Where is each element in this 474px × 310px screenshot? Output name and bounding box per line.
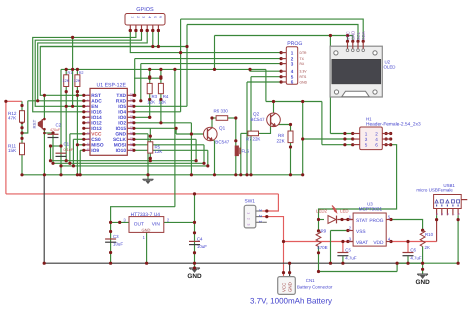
svg-text:MOSI: MOSI	[114, 143, 127, 149]
svg-text:Q2: Q2	[253, 112, 260, 117]
wire	[213, 139, 215, 175]
junction	[159, 98, 162, 101]
wire	[228, 117, 236, 119]
resistor R10	[420, 230, 425, 246]
wire	[342, 256, 344, 263]
wire	[52, 133, 54, 163]
junction	[341, 262, 344, 265]
junction	[76, 90, 79, 93]
svg-text:IO2: IO2	[118, 121, 126, 127]
wire	[265, 69, 267, 101]
wire	[391, 241, 437, 243]
capacitor C6	[403, 252, 414, 254]
wire	[40, 46, 187, 48]
svg-text:1: 1	[247, 212, 251, 214]
svg-text:VBAT: VBAT	[356, 240, 368, 246]
wire	[208, 118, 213, 131]
svg-text:12K: 12K	[155, 149, 163, 154]
junction	[51, 131, 54, 134]
wire	[422, 263, 424, 274]
svg-text:22K: 22K	[253, 137, 261, 142]
wire	[149, 94, 151, 118]
svg-text:12K: 12K	[147, 99, 155, 104]
wire	[110, 222, 112, 263]
svg-text:5: 5	[86, 116, 90, 118]
svg-text:BC547: BC547	[215, 140, 229, 145]
svg-text:19: 19	[129, 109, 133, 113]
junction	[109, 251, 112, 254]
svg-text:2: 2	[258, 215, 263, 218]
junction	[43, 94, 46, 97]
wire	[319, 145, 397, 231]
svg-text:FLS: FLS	[242, 149, 250, 154]
junction	[190, 132, 193, 135]
svg-text:ADC: ADC	[91, 99, 102, 105]
svg-text:4: 4	[291, 69, 294, 74]
wire	[250, 69, 281, 71]
junction	[213, 68, 216, 71]
junction	[72, 164, 75, 167]
wire	[21, 101, 23, 110]
wire	[60, 69, 62, 174]
svg-text:R10: R10	[425, 232, 434, 237]
junction	[43, 173, 46, 176]
junction	[159, 68, 162, 71]
ground symbol center	[189, 267, 200, 269]
svg-text:IO16: IO16	[91, 110, 102, 116]
wire	[289, 263, 291, 279]
svg-text:4: 4	[375, 137, 378, 142]
svg-text:10: 10	[86, 142, 90, 146]
junction	[175, 127, 178, 130]
wire	[397, 262, 458, 264]
svg-text:IO10: IO10	[116, 148, 127, 154]
junction	[280, 80, 283, 83]
svg-text:2: 2	[247, 218, 251, 220]
junction	[265, 209, 268, 212]
junction	[317, 251, 320, 254]
svg-text:6: 6	[159, 16, 163, 18]
svg-text:3.7V, 1000mAh Battery: 3.7V, 1000mAh Battery	[250, 297, 332, 306]
junction	[159, 121, 162, 124]
svg-text:RTS: RTS	[300, 75, 307, 79]
wire	[76, 69, 78, 74]
wire	[146, 232, 148, 263]
junction	[59, 144, 62, 147]
junction	[206, 164, 209, 167]
resistor R2	[75, 75, 80, 87]
junction	[51, 162, 54, 165]
wire	[53, 162, 204, 164]
wire	[422, 247, 424, 264]
svg-text:1: 1	[131, 16, 135, 18]
svg-text:VIN: VIN	[152, 221, 161, 227]
svg-text:15K: 15K	[8, 148, 17, 153]
svg-text:12K: 12K	[74, 79, 81, 83]
IC U1 ESP-12E	[90, 88, 127, 155]
svg-text:GND: GND	[187, 273, 202, 280]
svg-text:17: 17	[129, 120, 133, 124]
svg-text:3: 3	[86, 105, 90, 107]
svg-text:SCLK: SCLK	[113, 137, 127, 143]
svg-text:RST: RST	[32, 119, 37, 128]
wire	[175, 128, 177, 134]
capacitor C3	[105, 238, 116, 240]
junction	[148, 68, 151, 71]
junction	[272, 100, 275, 103]
svg-text:7: 7	[86, 127, 90, 129]
ground symbol right	[417, 273, 428, 275]
wire	[259, 126, 271, 134]
wire	[215, 36, 353, 42]
svg-text:RXD: RXD	[116, 99, 127, 105]
junction	[351, 132, 354, 135]
svg-text:TX: TX	[300, 57, 305, 61]
wire	[69, 134, 71, 164]
junction	[151, 29, 154, 32]
svg-text:2: 2	[86, 99, 90, 101]
junction	[346, 34, 349, 37]
junction	[248, 68, 251, 71]
junction	[396, 262, 399, 265]
resistor R4	[158, 83, 163, 93]
svg-text:4: 4	[147, 16, 151, 18]
junction	[65, 105, 68, 108]
svg-text:R2: R2	[79, 71, 84, 75]
wire	[235, 156, 237, 175]
svg-text:3: 3	[365, 137, 368, 142]
wire	[135, 58, 281, 60]
junction	[193, 251, 196, 254]
junction	[346, 240, 349, 243]
wire	[347, 36, 349, 42]
junction	[140, 29, 143, 32]
junction	[343, 137, 346, 140]
junction	[210, 116, 213, 119]
junction	[190, 173, 193, 176]
OLED module U2	[330, 46, 382, 97]
svg-text:LED: LED	[340, 209, 349, 214]
svg-text:IO14: IO14	[91, 115, 102, 121]
junction	[289, 173, 292, 176]
svg-text:R7: R7	[246, 137, 252, 142]
junction	[280, 51, 283, 54]
svg-text:3.3V: 3.3V	[300, 70, 308, 74]
svg-text:C4: C4	[197, 236, 203, 241]
junction	[301, 137, 304, 140]
junction	[193, 231, 196, 234]
junction	[421, 229, 424, 232]
wire	[194, 194, 196, 263]
svg-text:5: 5	[153, 16, 157, 18]
svg-text:MISO: MISO	[91, 143, 104, 149]
wire	[290, 143, 292, 175]
wire	[207, 150, 209, 166]
junction	[351, 137, 354, 140]
junction	[193, 262, 196, 265]
wire	[80, 149, 84, 151]
junction	[280, 70, 283, 73]
wire	[134, 77, 162, 79]
junction	[179, 51, 182, 54]
wire	[33, 31, 136, 112]
svg-text:TXD: TXD	[116, 93, 126, 99]
wire	[240, 133, 242, 174]
junction	[193, 192, 196, 195]
junction	[280, 75, 283, 78]
wire	[181, 19, 364, 41]
wire	[262, 217, 283, 273]
svg-text:RST: RST	[91, 93, 101, 99]
wire	[66, 105, 84, 107]
svg-text:1: 1	[86, 94, 90, 96]
junction	[346, 229, 349, 232]
junction	[65, 159, 68, 162]
junction	[249, 173, 252, 176]
wire	[65, 87, 67, 161]
junction	[265, 215, 268, 218]
junction	[20, 121, 23, 124]
svg-text:IO4: IO4	[118, 110, 126, 116]
wire	[28, 100, 84, 102]
svg-text:C3: C3	[113, 234, 119, 239]
svg-text:STAT: STAT	[356, 218, 368, 224]
wire	[61, 68, 266, 70]
resistor R9	[316, 231, 321, 247]
svg-text:Battery Connector: Battery Connector	[297, 285, 333, 290]
svg-text:6: 6	[291, 80, 294, 85]
junction	[185, 45, 188, 48]
wire	[407, 242, 409, 253]
junction	[213, 173, 216, 176]
wire	[322, 144, 353, 146]
junction	[288, 271, 291, 274]
wire	[160, 94, 162, 123]
svg-text:470E: 470E	[317, 245, 327, 250]
svg-text:15: 15	[129, 131, 133, 135]
wire	[79, 150, 81, 175]
svg-text:VCC: VCC	[91, 132, 102, 138]
svg-text:470uF: 470uF	[50, 128, 61, 132]
junction	[301, 100, 304, 103]
svg-text:22: 22	[129, 93, 133, 97]
junction	[71, 36, 74, 39]
junction	[329, 262, 332, 265]
wire	[134, 149, 208, 151]
transistor Q1	[204, 127, 218, 141]
svg-text:IO5: IO5	[118, 104, 126, 110]
svg-text:330: 330	[221, 109, 229, 114]
svg-text:3: 3	[291, 61, 294, 66]
wire	[65, 69, 67, 74]
junction	[343, 143, 346, 146]
svg-text:5: 5	[365, 142, 368, 147]
junction	[79, 173, 82, 176]
wire	[277, 123, 290, 125]
svg-text:1: 1	[365, 131, 368, 136]
wire	[72, 37, 74, 106]
junction	[76, 68, 79, 71]
wire	[50, 146, 52, 161]
junction	[148, 98, 151, 101]
wire	[342, 242, 344, 253]
junction	[76, 143, 79, 146]
junction	[149, 157, 152, 160]
junction	[289, 123, 292, 126]
capacitor C1	[56, 152, 67, 154]
junction	[239, 173, 242, 176]
svg-text:PROG: PROG	[369, 218, 383, 224]
junction	[4, 100, 7, 103]
svg-text:R1: R1	[68, 71, 73, 75]
svg-text:C1: C1	[64, 142, 70, 147]
wire	[134, 59, 136, 96]
wire	[38, 31, 148, 101]
junction	[301, 173, 304, 176]
wire	[134, 127, 176, 129]
svg-text:11: 11	[86, 148, 90, 152]
wire	[247, 81, 281, 83]
wire	[160, 69, 162, 83]
wire	[77, 144, 83, 146]
junction	[109, 262, 112, 265]
resistor R7	[248, 131, 259, 136]
wire	[76, 87, 78, 175]
wire	[147, 175, 149, 180]
svg-text:6: 6	[375, 142, 378, 147]
wire	[250, 77, 252, 175]
junction	[71, 68, 74, 71]
wire	[43, 129, 45, 175]
wire	[43, 175, 45, 263]
junction	[148, 77, 151, 80]
wire	[51, 160, 197, 162]
junction	[129, 29, 132, 32]
svg-text:1: 1	[258, 220, 263, 223]
junction	[421, 262, 424, 265]
junction	[351, 143, 354, 146]
junction	[59, 164, 62, 167]
junction	[346, 40, 349, 43]
wire	[134, 133, 148, 135]
svg-text:PROG: PROG	[287, 41, 302, 47]
junction	[280, 57, 283, 60]
junction	[406, 240, 409, 243]
wire	[273, 102, 275, 113]
svg-text:VDD: VDD	[373, 240, 384, 246]
svg-text:3: 3	[123, 217, 126, 222]
junction	[36, 99, 39, 102]
junction	[109, 230, 112, 233]
svg-text:13: 13	[129, 142, 133, 146]
resistor R1	[64, 75, 69, 87]
svg-text:Q1: Q1	[219, 126, 226, 131]
wire	[176, 133, 207, 135]
wire	[262, 194, 278, 211]
junction	[195, 159, 198, 162]
junction	[389, 218, 392, 221]
wire	[331, 230, 348, 232]
junction	[20, 137, 23, 140]
wire	[283, 273, 285, 279]
wire	[235, 118, 237, 146]
wire	[186, 25, 188, 107]
junction	[389, 143, 392, 146]
wire	[330, 133, 352, 135]
junction	[343, 132, 346, 135]
junction	[157, 45, 160, 48]
svg-text:GND: GND	[288, 282, 293, 292]
wire	[319, 271, 398, 273]
wire	[241, 132, 248, 134]
junction	[49, 144, 52, 147]
junction	[389, 240, 392, 243]
svg-text:9: 9	[86, 138, 90, 140]
svg-text:H1: H1	[366, 117, 372, 122]
svg-text:12K: 12K	[158, 99, 166, 104]
wire	[174, 69, 176, 206]
junction	[389, 132, 392, 135]
wire	[134, 122, 192, 124]
svg-text:1: 1	[291, 50, 294, 55]
junction	[329, 34, 332, 37]
svg-text:5: 5	[291, 74, 294, 79]
resistor R5	[148, 142, 153, 153]
wire	[164, 221, 195, 223]
wire	[303, 138, 353, 140]
svg-text:BC547: BC547	[251, 117, 265, 122]
wire	[44, 262, 422, 264]
wire	[330, 231, 332, 264]
svg-text:3: 3	[258, 209, 263, 212]
svg-text:3: 3	[349, 236, 352, 241]
junction	[20, 104, 23, 107]
resistor R12	[20, 111, 25, 123]
wire	[302, 102, 304, 175]
svg-text:0.1uF: 0.1uF	[64, 148, 74, 152]
wire	[391, 220, 423, 231]
junction	[109, 221, 112, 224]
wire	[140, 64, 142, 101]
junction	[351, 40, 354, 43]
wire	[147, 134, 149, 175]
svg-text:8: 8	[86, 132, 90, 134]
resistor R6	[216, 116, 228, 121]
junction	[43, 262, 46, 265]
junction	[49, 159, 52, 162]
svg-text:OLED: OLED	[384, 65, 396, 70]
junction	[76, 173, 79, 176]
svg-text:VSS: VSS	[356, 229, 366, 235]
junction	[202, 162, 205, 165]
junction	[385, 137, 388, 140]
wire	[70, 133, 84, 135]
capacitor C2	[48, 133, 59, 135]
svg-text:RX: RX	[300, 62, 305, 66]
junction	[457, 262, 460, 265]
wire	[44, 132, 53, 134]
wire	[134, 138, 196, 140]
junction	[282, 240, 285, 243]
wire	[43, 95, 45, 119]
capacitor C5	[337, 252, 348, 254]
svg-text:16: 16	[129, 126, 133, 130]
svg-text:IO0: IO0	[118, 115, 126, 121]
svg-text:IO15: IO15	[116, 126, 127, 132]
wire	[72, 139, 74, 166]
junction	[148, 75, 151, 78]
svg-text:C5: C5	[345, 248, 351, 253]
